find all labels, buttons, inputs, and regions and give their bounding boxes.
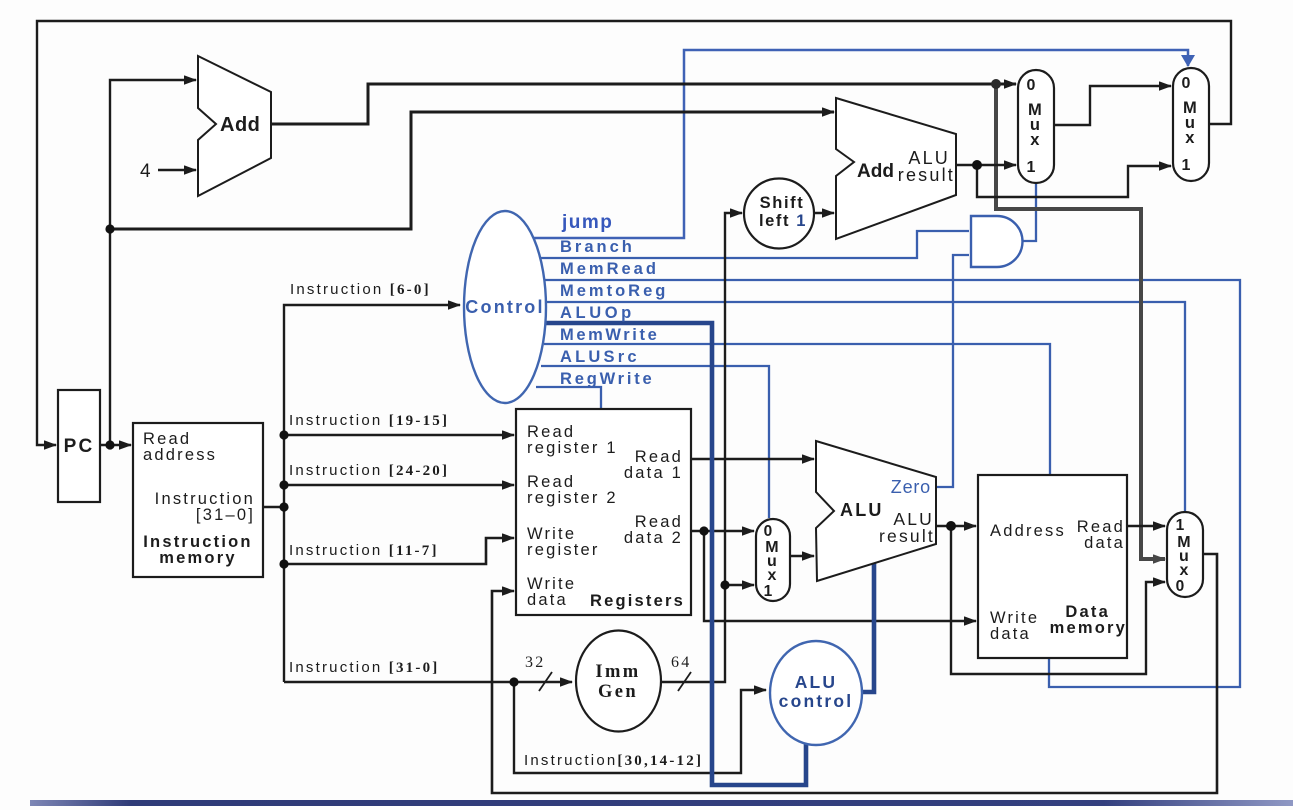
- svg-text:MemWrite: MemWrite: [560, 326, 659, 344]
- wire: immediate branch to ALU source Mux input 1: [725, 584, 754, 586]
- ellipse: ALU control: [770, 641, 862, 745]
- svg-text:x: x: [1185, 129, 1196, 147]
- node: immediate junction at ALU source Mux: [720, 580, 729, 589]
- wire: MemWrite control line from Control to top of Data memory: [544, 344, 1050, 474]
- svg-text:ALU: ALU: [840, 500, 884, 520]
- node: branch target junction: [972, 160, 982, 170]
- node: PC branch junction: [105, 224, 114, 233]
- wire: Instruction [24-20] to Read register 2: [284, 484, 514, 486]
- wire: Shift left 1 output into branch Add lower input: [814, 212, 834, 214]
- wire: ALU control operation thick navy line up into ALU bottom edge: [860, 562, 874, 692]
- wire: branch target tap down across and up into jump Mux input 1: [977, 165, 1171, 197]
- node: instruction [31-0] tap to ALU control: [509, 677, 518, 686]
- svg-text:1: 1: [1176, 517, 1187, 534]
- svg-text:0: 0: [1176, 578, 1187, 595]
- svg-text:Branch: Branch: [560, 238, 635, 256]
- svg-text:register 1: register 1: [527, 439, 618, 457]
- wire: ALUSrc control line from Control to top of ALU source Mux: [541, 366, 769, 518]
- gate: AND (branch and zero): [971, 216, 1023, 267]
- wire: branch Mux output up to jump Mux input 0: [1054, 86, 1171, 125]
- wire: instruction bus down segment: [283, 507, 285, 682]
- svg-text:MemRead: MemRead: [560, 260, 659, 278]
- box: Registers: [516, 409, 691, 615]
- svg-text:x: x: [1030, 131, 1041, 149]
- svg-text:result: result: [879, 526, 935, 546]
- mux: jump Mux (0/1) top right: [1173, 68, 1209, 181]
- wire: ALU source Mux output to ALU lower input: [790, 555, 814, 557]
- svg-text:0: 0: [764, 523, 775, 540]
- wire: instruction bus vertical from Instruction memory output: [263, 305, 460, 507]
- svg-text:Address: Address: [990, 522, 1066, 540]
- svg-text:Zero: Zero: [891, 477, 931, 497]
- svg-text:Registers: Registers: [590, 592, 685, 610]
- wire: Data memory Read data to write-back Mux input 1: [1127, 525, 1165, 527]
- svg-text:Add: Add: [220, 114, 260, 136]
- mux: branch Mux (0/1) top middle: [1018, 70, 1054, 183]
- wire: ALU result to Data memory Address: [936, 525, 976, 527]
- wire: Read data 2 tap down to Data memory Write data: [704, 531, 976, 621]
- svg-text:ALU: ALU: [795, 672, 838, 692]
- svg-text:Imm: Imm: [595, 662, 640, 682]
- svg-text:RegWrite: RegWrite: [560, 370, 655, 388]
- svg-text:jump: jump: [561, 212, 613, 233]
- mux: ALU source Mux (0/1): [756, 519, 790, 601]
- svg-text:memory: memory: [159, 549, 236, 567]
- svg-text:ALUOp: ALUOp: [560, 304, 635, 322]
- box: Instruction memory: [133, 423, 263, 577]
- node: instruction bus junction [19-15]: [279, 430, 288, 439]
- wire: PC value branch right and up to branch Add top input: [110, 112, 834, 229]
- svg-text:data: data: [527, 591, 568, 609]
- svg-text:control: control: [779, 691, 854, 711]
- svg-text:Instruction[30,14-12]: Instruction[30,14-12]: [524, 752, 703, 769]
- svg-text:Control: Control: [465, 297, 544, 317]
- slash: 32-bit width tick on Imm Gen input: [539, 672, 552, 691]
- wire: Branch control line from Control to AND gate top input: [540, 231, 969, 258]
- wire: Instruction [19-15] to Read register 1: [284, 434, 514, 436]
- svg-text:Instruction [31-0]: Instruction [31-0]: [289, 659, 439, 676]
- adder Add (branch target) with ALU result label: [836, 98, 956, 239]
- wire: constant 4 into top Add lower input: [158, 169, 196, 171]
- svg-text:x: x: [1179, 562, 1190, 579]
- ellipse: Imm Gen: [576, 631, 661, 732]
- wire: branch Add ALU result output to branch Mux input 1: [956, 164, 1016, 166]
- node: instruction bus junction [11-7]: [279, 559, 288, 568]
- wire: ALU result tap down across and up to write-back Mux input 0: [951, 526, 1165, 674]
- wire: new PC loop from jump Mux output along top border down to PC input: [37, 21, 1231, 445]
- circle: Shift left 1: [744, 179, 814, 249]
- wire: Instruction [11-7] to Write register: [284, 538, 514, 564]
- wire: RegWrite control line from Control to top of Registers: [536, 387, 601, 408]
- wire: Instruction [31-0] to Imm Gen input: [284, 681, 572, 683]
- decorative bottom bar: [30, 800, 1293, 806]
- svg-text:[31–0]: [31–0]: [196, 506, 255, 524]
- svg-text:ALUSrc: ALUSrc: [560, 348, 640, 366]
- box: Data memory: [978, 475, 1127, 658]
- svg-text:Shift: Shift: [760, 194, 805, 212]
- node: Read data 2 junction: [699, 526, 708, 535]
- svg-text:result: result: [898, 165, 955, 185]
- svg-text:register 2: register 2: [527, 489, 618, 507]
- svg-text:4: 4: [140, 161, 153, 182]
- node: instruction bus junction [31-0] output: [279, 502, 288, 511]
- wire: Instruction[30,14-12] tap down and right into ALU control: [514, 682, 766, 773]
- wire: Zero flag from ALU right edge, blue line up to AND gate lower input: [936, 255, 969, 487]
- node: instruction bus junction [24-20]: [279, 480, 288, 489]
- wire: write-back Mux output down around bottom and up into Registers Write data: [492, 554, 1217, 793]
- svg-text:Instruction [19-15]: Instruction [19-15]: [289, 412, 449, 429]
- svg-text:address: address: [143, 446, 217, 464]
- wire: PC output to Instruction memory read address: [100, 444, 131, 446]
- slash: 64-bit width tick on Imm Gen output: [678, 672, 691, 691]
- svg-text:data 1: data 1: [624, 464, 683, 482]
- svg-text:0: 0: [1026, 77, 1037, 94]
- svg-text:0: 0: [1181, 75, 1192, 92]
- wire: Imm Gen output right then up to Shift left 1: [661, 213, 742, 682]
- svg-text:PC: PC: [64, 436, 95, 457]
- svg-text:Gen: Gen: [598, 682, 638, 702]
- svg-text:64: 64: [671, 654, 691, 671]
- svg-text:32: 32: [525, 654, 545, 671]
- node: PC output junction: [105, 440, 114, 449]
- svg-text:Instruction [24-20]: Instruction [24-20]: [289, 462, 449, 479]
- ellipse: Control unit: [464, 211, 546, 403]
- svg-text:1: 1: [1181, 157, 1192, 174]
- wire: Read data 1 to ALU upper input: [691, 458, 814, 460]
- svg-text:memory: memory: [1050, 619, 1127, 637]
- node: PC+4 junction before branch Mux: [991, 79, 1001, 89]
- svg-text:Instruction [11-7]: Instruction [11-7]: [289, 542, 439, 559]
- svg-text:MemtoReg: MemtoReg: [560, 282, 668, 300]
- wire: jump control line from Control up and across to top of jump Mux, blue arrow down: [531, 50, 1188, 238]
- wire: AND gate output up to bottom of branch Mux: [1022, 184, 1036, 241]
- svg-text:register: register: [527, 541, 600, 559]
- wire: ALUOp thick navy line from Control down around to ALU control bottom: [545, 323, 806, 785]
- adder Add (PC+4): [198, 56, 271, 196]
- svg-text:1: 1: [1026, 159, 1037, 176]
- svg-text:left 1: left 1: [759, 212, 807, 230]
- wire: Read data 2 to ALU source Mux input 0: [691, 530, 754, 532]
- wire: MemRead control line from Control right, down right side, left along bottom, up into Data memory bottom: [544, 280, 1240, 687]
- wire: PC+4 from top Add output across to branch Mux input 0: [271, 84, 1016, 124]
- svg-text:data: data: [990, 625, 1031, 643]
- mux: write-back Mux (1/0) right: [1167, 512, 1203, 597]
- alu: main ALU: [816, 441, 936, 581]
- svg-text:Instruction [6-0]: Instruction [6-0]: [290, 281, 431, 298]
- svg-text:data: data: [1084, 534, 1125, 552]
- svg-text:Add: Add: [857, 161, 894, 182]
- wire: PC+4 tap down and across to middle input of write-back Mux (grey): [996, 84, 1165, 559]
- node: ALU result junction: [946, 521, 956, 531]
- svg-text:1: 1: [764, 583, 775, 600]
- svg-text:data 2: data 2: [624, 529, 683, 547]
- svg-text:x: x: [767, 567, 778, 584]
- wire: MemtoReg control line from Control to top of write-back Mux: [545, 302, 1185, 511]
- wire: PC value up the left side into top Add input: [110, 80, 196, 445]
- register PC: [58, 390, 100, 502]
